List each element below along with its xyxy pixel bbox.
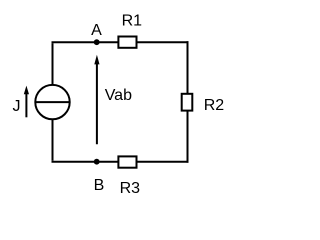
- svg-text:Vab: Vab: [105, 87, 132, 104]
- wire: [137, 161, 189, 163]
- wire: [137, 41, 189, 43]
- svg-text:A: A: [91, 22, 102, 39]
- svg-text:R3: R3: [120, 180, 141, 197]
- wire: [52, 161, 119, 163]
- resistor R1: [118, 37, 136, 48]
- voltage arrow Vab: [94, 55, 99, 144]
- resistor R3: [118, 156, 136, 167]
- node B: [94, 159, 100, 165]
- current direction arrow (J): [24, 86, 29, 118]
- node A: [94, 39, 100, 45]
- wire: [52, 119, 54, 160]
- wire: [187, 41, 189, 94]
- svg-text:J: J: [13, 98, 21, 115]
- svg-text:R1: R1: [122, 12, 143, 29]
- wire: [187, 111, 189, 163]
- current source J: [35, 85, 69, 119]
- resistor R2: [182, 94, 193, 111]
- svg-text:B: B: [94, 177, 105, 194]
- wire: [52, 43, 54, 85]
- wire: [52, 41, 119, 43]
- svg-text:R2: R2: [204, 97, 225, 114]
